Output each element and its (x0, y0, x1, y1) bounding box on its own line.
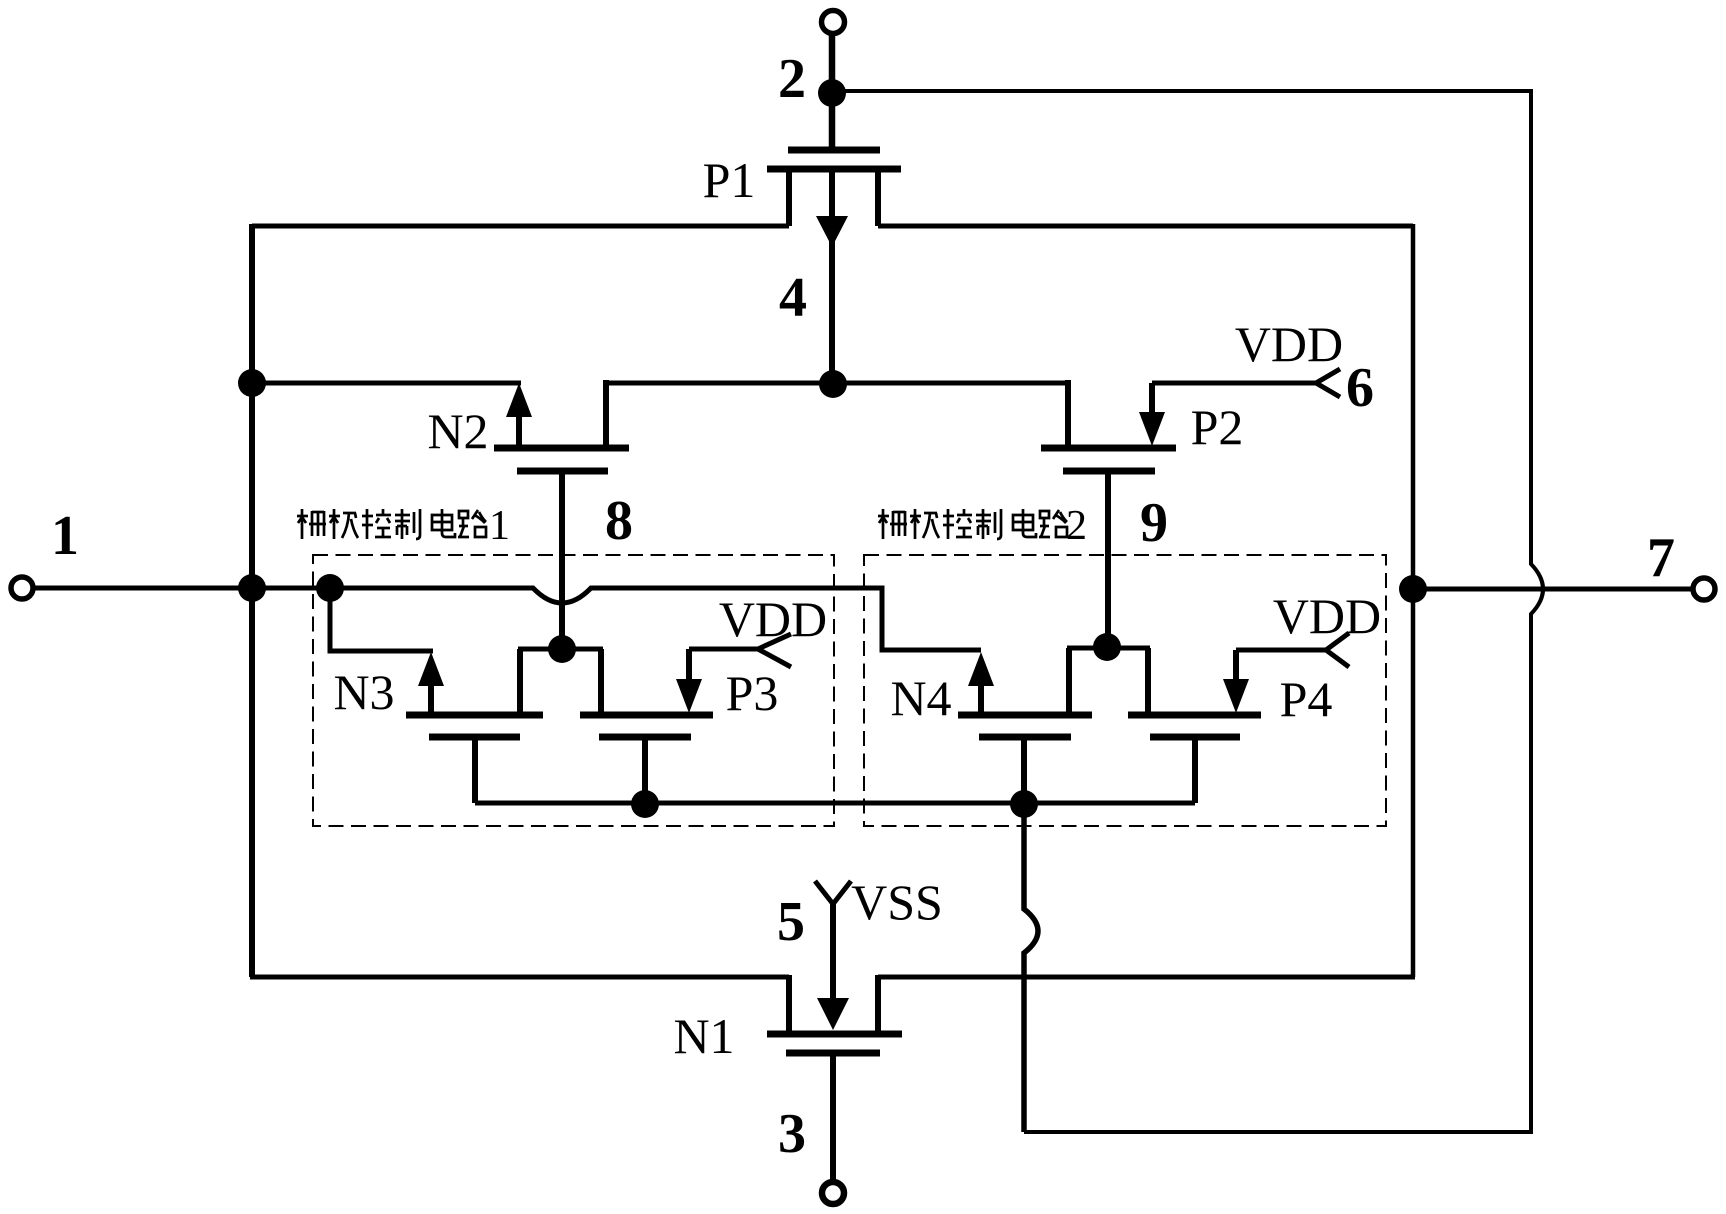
svg-text:P4: P4 (1280, 671, 1333, 727)
svg-text:P1: P1 (703, 152, 756, 208)
svg-text:7: 7 (1647, 527, 1675, 589)
svg-text:2: 2 (778, 48, 806, 110)
svg-text:1: 1 (489, 503, 510, 549)
svg-text:N2: N2 (427, 403, 488, 459)
svg-text:VDD: VDD (1273, 588, 1381, 644)
svg-text:P3: P3 (726, 665, 779, 721)
svg-text:6: 6 (1346, 357, 1374, 419)
svg-text:N4: N4 (890, 670, 951, 726)
svg-text:9: 9 (1140, 492, 1168, 554)
svg-text:N1: N1 (673, 1008, 734, 1064)
svg-text:2: 2 (1066, 503, 1087, 549)
svg-text:VDD: VDD (719, 591, 827, 647)
svg-text:5: 5 (777, 891, 805, 953)
svg-text:4: 4 (779, 267, 807, 329)
svg-text:P2: P2 (1191, 399, 1244, 455)
svg-text:1: 1 (51, 505, 79, 567)
svg-text:VSS: VSS (851, 874, 943, 930)
svg-text:VDD: VDD (1235, 316, 1343, 372)
svg-text:N3: N3 (333, 664, 394, 720)
svg-text:3: 3 (778, 1103, 806, 1165)
svg-text:8: 8 (605, 490, 633, 552)
